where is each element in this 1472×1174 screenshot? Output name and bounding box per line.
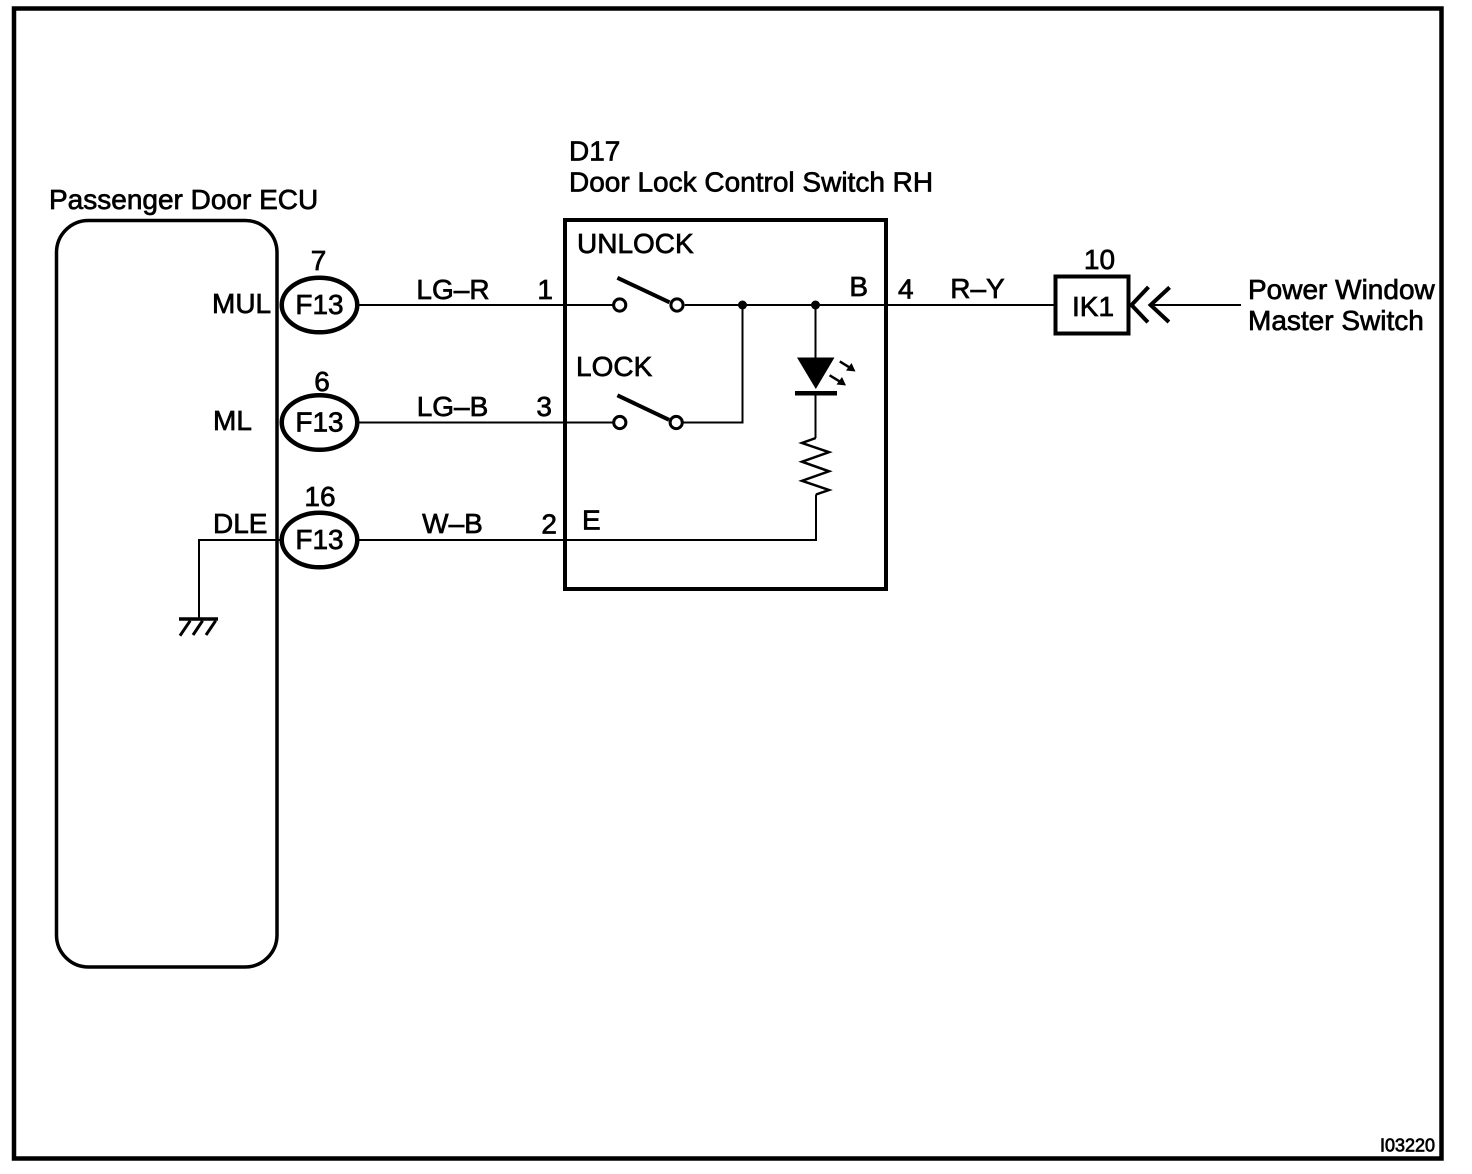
svg-text:UNLOCK: UNLOCK: [577, 228, 694, 259]
connector F13 pin 16 (DLE): [282, 481, 358, 567]
wire DLE to ground: [199, 540, 281, 619]
resistor (LED series): [802, 438, 829, 495]
wire R-Y (D17 pin4 to IK1): [886, 304, 1056, 306]
svg-text:R–Y: R–Y: [950, 273, 1005, 304]
svg-text:1: 1: [537, 274, 553, 305]
svg-text:F13: F13: [295, 524, 343, 555]
junction dot at lock/unlock node: [738, 301, 747, 310]
switch UNLOCK (pin1 to B): [565, 278, 886, 311]
connector F13 pin 7 (MUL): [282, 245, 358, 332]
wire to Power Window Master Switch: [1152, 304, 1241, 306]
svg-text:7: 7: [311, 245, 327, 276]
wire resistor to E: [565, 495, 816, 541]
connector F13 pin 6 (ML): [282, 366, 358, 450]
wire LG-B (pin6 to D17 pin3): [359, 422, 565, 424]
connector arrows (double chevron): [1132, 287, 1170, 322]
svg-text:DLE: DLE: [213, 508, 267, 539]
svg-text:MUL: MUL: [212, 288, 271, 319]
svg-text:LOCK: LOCK: [576, 351, 653, 382]
svg-text:I03220: I03220: [1380, 1136, 1435, 1156]
svg-text:10: 10: [1084, 244, 1115, 275]
svg-text:D17: D17: [569, 136, 620, 167]
junction dot at LED branch: [811, 301, 820, 310]
switch LOCK (pin3): [565, 395, 682, 428]
svg-text:LG–B: LG–B: [417, 391, 489, 422]
svg-text:6: 6: [314, 366, 330, 397]
svg-text:Door Lock Control Switch RH: Door Lock Control Switch RH: [569, 167, 933, 198]
svg-text:16: 16: [304, 481, 335, 512]
label Power Window Master Switch: [1248, 274, 1436, 336]
svg-text:F13: F13: [295, 407, 343, 438]
ground: [179, 619, 218, 636]
svg-text:E: E: [582, 505, 601, 536]
svg-text:Passenger Door ECU: Passenger Door ECU: [49, 184, 318, 215]
svg-text:W–B: W–B: [422, 508, 483, 539]
connector IK1 pin 10: [1056, 244, 1129, 334]
svg-text:LG–R: LG–R: [416, 274, 489, 305]
wire LG-R (pin7 to D17 pin1): [359, 304, 565, 306]
switch block D17: [565, 220, 886, 589]
svg-text:Power Window: Power Window: [1248, 274, 1436, 305]
svg-text:B: B: [849, 271, 868, 302]
LED indicator: [795, 305, 856, 438]
svg-text:4: 4: [898, 274, 914, 305]
ECU block U1: Passenger Door ECU: [49, 184, 318, 967]
svg-text:IK1: IK1: [1072, 291, 1114, 322]
wire lock output up to unlock wire: [683, 305, 742, 423]
svg-text:Master Switch: Master Switch: [1248, 305, 1424, 336]
svg-text:3: 3: [536, 391, 552, 422]
svg-text:ML: ML: [213, 405, 252, 436]
svg-text:F13: F13: [295, 289, 343, 320]
wire W-B (pin16 to D17 pin2): [359, 539, 565, 541]
svg-text:2: 2: [541, 509, 557, 540]
